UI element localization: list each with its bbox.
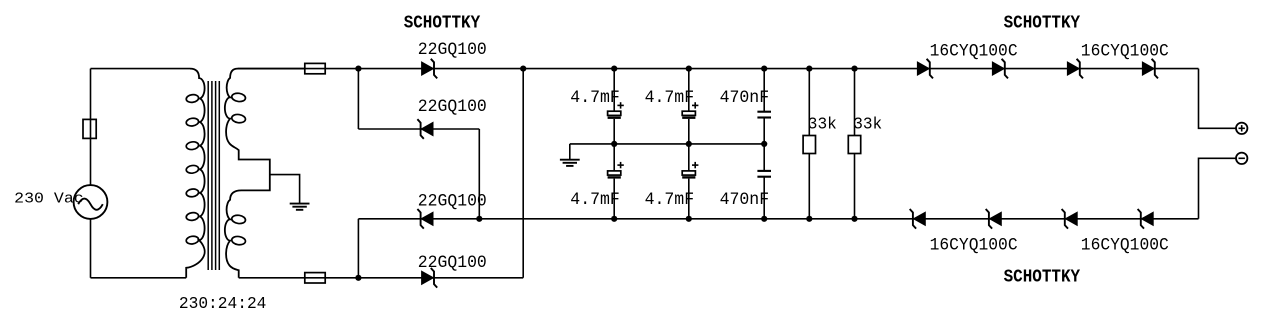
- wire R1 top lead: [808, 69, 810, 136]
- node middle rail C2: [686, 141, 692, 147]
- wire C2b bottom lead: [688, 179, 690, 219]
- node bridge output top: [520, 66, 526, 72]
- svg-text:22GQ100: 22GQ100: [418, 40, 487, 60]
- node A: [355, 66, 361, 72]
- wire node A to row 2: [357, 69, 359, 129]
- wire R2 bottom lead: [854, 154, 856, 219]
- svg-text:16CYQ100C: 16CYQ100C: [930, 41, 1018, 61]
- wire primary top: [91, 68, 191, 70]
- wire C2b top lead: [688, 144, 690, 171]
- wire left vertical lower: [90, 219, 92, 278]
- svg-text:4.7mF: 4.7mF: [645, 88, 695, 108]
- fuse F1 (primary): [83, 119, 96, 138]
- svg-text:4.7mF: 4.7mF: [570, 190, 620, 210]
- fuse F3 (secondary bottom): [305, 273, 325, 283]
- svg-text:230 Vac: 230 Vac: [14, 191, 84, 208]
- transformer T1 primary loops: [186, 94, 199, 245]
- wire C1a bottom lead: [613, 119, 615, 144]
- wire negative rail left end: [358, 218, 479, 220]
- svg-text:4.7mF: 4.7mF: [570, 88, 620, 108]
- fuse F2 (secondary top): [305, 63, 325, 73]
- wire middle rail: [570, 143, 764, 145]
- capacitor C2a 4.7mF: [682, 102, 698, 118]
- wire negative rail: [479, 218, 1198, 220]
- svg-text:SCHOTTKY: SCHOTTKY: [404, 12, 481, 33]
- svg-text:22GQ100: 22GQ100: [418, 192, 487, 212]
- wire center tap: [270, 175, 300, 204]
- capacitor C2b 4.7mF: [682, 162, 698, 178]
- wire ground stem: [569, 144, 571, 160]
- diode D10 16CYQ100C: [986, 209, 1002, 229]
- resistor R1 33k: [803, 136, 815, 154]
- diode D8 16CYQ100C: [1142, 59, 1158, 79]
- node top rail R1: [806, 66, 812, 72]
- wire C3b bottom lead: [763, 177, 765, 219]
- wire secondary bottom rail: [239, 277, 524, 279]
- transformer T1 secondary windings and center-tap wires: [225, 69, 305, 278]
- svg-text:16CYQ100C: 16CYQ100C: [1081, 41, 1169, 61]
- wire row 2: [358, 128, 479, 130]
- node bottom rail R1: [806, 216, 812, 222]
- node top rail C2: [686, 66, 692, 72]
- capacitor C1a 4.7mF: [608, 102, 624, 118]
- diode D4 22GQ100: [422, 268, 438, 288]
- capacitor C3a 470nF: [757, 112, 771, 118]
- wire top rail left section: [358, 68, 523, 70]
- node bottom rail C2: [686, 216, 692, 222]
- wire C3a bottom lead: [763, 118, 765, 144]
- wire C1b top lead: [613, 144, 615, 171]
- wire C3a top lead: [763, 69, 765, 112]
- wire C2a bottom lead: [688, 119, 690, 144]
- node bottom rail R2: [851, 216, 857, 222]
- svg-text:470nF: 470nF: [720, 88, 770, 108]
- AC source V1 230 Vac: [74, 185, 108, 219]
- wire R2 top lead: [854, 69, 856, 136]
- svg-text:22GQ100: 22GQ100: [418, 253, 487, 273]
- svg-text:SCHOTTKY: SCHOTTKY: [1004, 266, 1081, 287]
- wire C1a top lead: [613, 69, 615, 112]
- wire R1 bottom lead: [808, 154, 810, 219]
- wire primary bottom: [91, 277, 187, 279]
- terminal - output: [1236, 153, 1247, 164]
- wire negative output: [1199, 158, 1236, 219]
- svg-text:16CYQ100C: 16CYQ100C: [930, 235, 1018, 255]
- transformer T1 core: [208, 81, 219, 270]
- transformer T1 secondary loops: [231, 92, 246, 245]
- node B: [355, 275, 361, 281]
- svg-text:470nF: 470nF: [720, 190, 770, 210]
- wire bridge right vertical: [522, 69, 524, 278]
- wire positive rail: [523, 68, 1198, 70]
- node top rail C3: [761, 66, 767, 72]
- svg-text:33k: 33k: [808, 116, 837, 135]
- svg-text:4.7mF: 4.7mF: [645, 190, 695, 210]
- transformer T1 primary winding: [186, 69, 204, 278]
- wire row 2 down to negative rail: [478, 129, 480, 219]
- terminal + output: [1236, 123, 1247, 134]
- svg-text:SCHOTTKY: SCHOTTKY: [1004, 13, 1081, 34]
- capacitor C1b 4.7mF: [608, 162, 624, 178]
- wire C1b bottom lead: [613, 179, 615, 219]
- diode D3 22GQ100: [417, 209, 433, 229]
- wire secondary top rail: [238, 68, 359, 70]
- diode D7 16CYQ100C: [1067, 59, 1083, 79]
- node bottom rail C3: [761, 216, 767, 222]
- ground (filter): [560, 160, 580, 166]
- wire C3b top lead: [763, 144, 765, 171]
- diode D12 16CYQ100C: [1138, 209, 1154, 229]
- node middle rail C3: [761, 141, 767, 147]
- wire positive output: [1199, 69, 1236, 129]
- node middle rail C1: [611, 141, 617, 147]
- capacitor C3b 470nF: [757, 171, 771, 177]
- resistor R2 33k: [848, 136, 860, 154]
- svg-text:33k: 33k: [853, 116, 882, 135]
- diode D2 22GQ100: [417, 119, 433, 139]
- svg-text:230:24:24: 230:24:24: [179, 295, 267, 314]
- wire left vertical: [90, 69, 92, 186]
- wire C2a top lead: [688, 69, 690, 112]
- node top rail C1: [611, 66, 617, 72]
- diode D11 16CYQ100C: [1062, 209, 1078, 229]
- diode D6 16CYQ100C: [992, 59, 1008, 79]
- diode D1 22GQ100: [422, 59, 438, 79]
- ground (center tap): [290, 204, 310, 210]
- node D2/D3 junction: [476, 216, 482, 222]
- node top rail R2: [851, 66, 857, 72]
- svg-text:16CYQ100C: 16CYQ100C: [1081, 235, 1169, 255]
- node bottom rail C1: [611, 216, 617, 222]
- wire negative rail left vertical: [357, 219, 359, 278]
- svg-text:22GQ100: 22GQ100: [418, 97, 487, 117]
- diode D9 16CYQ100C: [910, 209, 926, 229]
- diode D5 16CYQ100C: [917, 59, 933, 79]
